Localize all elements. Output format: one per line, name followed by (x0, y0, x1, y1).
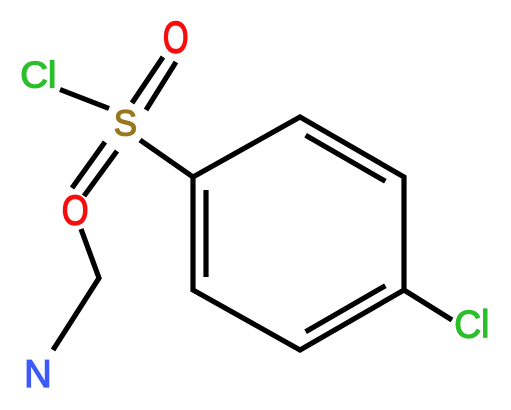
svg-text:O: O (163, 13, 189, 63)
svg-text:S: S (114, 103, 137, 144)
svg-text:O: O (62, 187, 89, 234)
svg-text:N: N (24, 353, 52, 396)
svg-text:Cl: Cl (20, 55, 56, 97)
svg-text:Cl: Cl (454, 304, 489, 347)
